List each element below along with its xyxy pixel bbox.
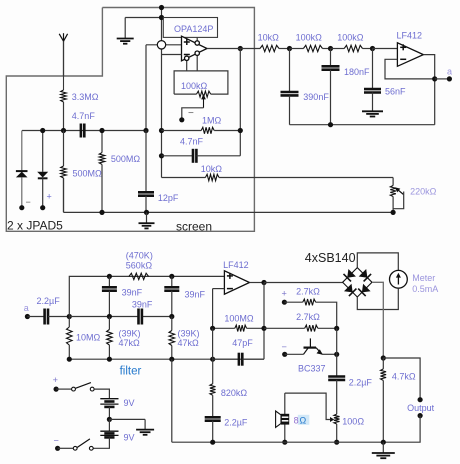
- label 390nF: [303, 92, 329, 102]
- svg-text:filter: filter: [120, 366, 142, 378]
- wire speaker vertical: [284, 393, 286, 442]
- svg-text:Ω: Ω: [300, 416, 307, 426]
- svg-text:220kΩ: 220kΩ: [410, 187, 437, 197]
- node filter n2: [328, 46, 333, 51]
- switch SW2: [58, 439, 94, 450]
- battery B2 9V: [93, 419, 118, 448]
- label 47k 2: [178, 338, 200, 348]
- wire bridge right vertical: [372, 282, 383, 358]
- node A junction: [67, 314, 72, 319]
- resistor R15 2.7k&#937;: [284, 299, 336, 328]
- label 1M: [202, 116, 222, 126]
- label 10M: [76, 333, 101, 343]
- node R3 top junction: [99, 128, 104, 133]
- wire feedback vertical: [239, 49, 241, 156]
- pot P1 wiper arrow: [182, 94, 206, 120]
- capacitor C4 390nF: [281, 49, 299, 125]
- terminal battery minus: [54, 436, 61, 451]
- node emitter junction: [334, 352, 339, 357]
- node 4.7k top junction: [381, 355, 386, 360]
- potentiometer P3 100&#937;: [285, 393, 340, 442]
- terminal pot wiper to V-: [179, 108, 194, 122]
- switch SW1: [56, 383, 109, 399]
- wire U3 out to bridge: [264, 282, 343, 284]
- ground G3: [362, 111, 383, 116]
- svg-text:180nF: 180nF: [344, 67, 370, 77]
- terminal battery plus: [53, 375, 59, 392]
- meter M1 0.5mA: [390, 270, 408, 288]
- wire filter top rail: [69, 276, 224, 316]
- svg-text:2 x JPAD5: 2 x JPAD5: [7, 219, 63, 233]
- resistor R9 10M&#937;: [67, 317, 73, 360]
- diode D2 JPAD5: [37, 131, 48, 208]
- terminal Output upper: [418, 397, 423, 402]
- svg-text:47pF: 47pF: [232, 338, 253, 348]
- svg-text:10MΩ: 10MΩ: [76, 333, 101, 343]
- wire out to terminal a: [435, 78, 450, 80]
- label 500M left: [73, 169, 103, 179]
- label 100k filter2: [337, 33, 364, 43]
- label 47k 1: [119, 338, 141, 348]
- node 100M left junction: [210, 326, 215, 331]
- svg-text:4.7nF: 4.7nF: [72, 111, 96, 121]
- node 100R bottom junction: [334, 440, 339, 445]
- svg-text:47kΩ: 47kΩ: [178, 338, 200, 348]
- svg-text:390nF: 390nF: [303, 92, 329, 102]
- resistor R8 100k&#937;: [331, 45, 373, 51]
- resistor R7 100k&#937;: [290, 45, 331, 51]
- node U3 out junction: [261, 280, 266, 285]
- terminal D1 minus: [19, 197, 31, 210]
- svg-text:3.3MΩ: 3.3MΩ: [72, 92, 99, 102]
- bridge rectifier 4xSB140 frame: [343, 268, 372, 297]
- wire U3 -input: [213, 289, 225, 329]
- label 10k filter: [258, 33, 280, 43]
- label 2.2uF input: [37, 296, 61, 306]
- capacitor C2 12pF: [138, 131, 154, 213]
- wire U1 output: [207, 48, 240, 50]
- label 12pF: [158, 193, 179, 203]
- resistor R12 47k&#937;: [169, 317, 175, 360]
- feedthrough bushing circle: [157, 41, 165, 49]
- label BC337: [298, 364, 326, 374]
- label 2.7k 1: [296, 287, 320, 297]
- node filter n1: [287, 46, 292, 51]
- label 220k: [410, 187, 437, 197]
- label 39nF 3: [132, 300, 153, 310]
- label filter: [120, 366, 142, 378]
- resistor R6 10k&#937; (filter): [240, 45, 289, 51]
- node fb vertical top junction: [238, 46, 243, 51]
- wire -input U1: [162, 54, 182, 56]
- node 2.7k junction: [334, 326, 339, 331]
- svg-text:−: −: [188, 108, 194, 119]
- svg-text:820kΩ: 820kΩ: [221, 388, 248, 398]
- wire screen enclosure (grounded shield box): [6, 8, 254, 232]
- label 9V bottom: [124, 433, 135, 443]
- label Meter: [412, 273, 435, 283]
- antenna: [59, 33, 67, 90]
- op-amp U1 label box: [163, 18, 217, 38]
- node rail-47k1 junction: [107, 357, 112, 362]
- svg-text:0.5mA: 0.5mA: [412, 284, 438, 294]
- wire +input vertical: [145, 45, 147, 131]
- terminal D2 plus: [40, 192, 52, 211]
- wire internal ground rail: [64, 178, 394, 212]
- label (470K): [126, 251, 153, 261]
- svg-text:10kΩ: 10kΩ: [201, 164, 223, 174]
- wire emitter chain vertical: [336, 328, 338, 376]
- label 100M: [224, 314, 254, 324]
- svg-text:100kΩ: 100kΩ: [296, 33, 323, 43]
- wire U3 output: [250, 282, 265, 284]
- capacitor C9 39nF: [164, 276, 179, 316]
- label 0.5mA: [412, 284, 438, 294]
- bridge diode D6 (bottom-right): [358, 284, 370, 296]
- svg-text:+: +: [47, 192, 52, 202]
- label 2.2uF right: [349, 378, 373, 388]
- capacitor C5 180nF: [322, 49, 340, 125]
- label 3.3M: [72, 92, 99, 102]
- bridge diode D5 (bottom-left): [344, 284, 356, 296]
- svg-text:9V: 9V: [124, 398, 135, 408]
- transistor Q1 BC337: [285, 338, 337, 354]
- svg-text:2.2µF: 2.2µF: [37, 296, 61, 306]
- node rail-4.7k junction: [381, 440, 386, 445]
- wire U2 -input loop: [385, 59, 435, 79]
- op-amp U1 OPA124P: [182, 36, 208, 61]
- svg-text:LF412: LF412: [397, 31, 423, 41]
- svg-text:39nF: 39nF: [185, 290, 206, 300]
- svg-text:56nF: 56nF: [385, 87, 406, 97]
- svg-text:BC337: BC337: [298, 364, 326, 374]
- node rail-820k bottom junction: [210, 440, 215, 445]
- resistor R2 500M&#937; (left): [61, 131, 67, 213]
- pin trim2 circle U1: [185, 56, 189, 71]
- label 4.7nF feedback: [180, 137, 204, 147]
- svg-text:Output: Output: [407, 403, 435, 413]
- label 2.7k 2: [296, 312, 320, 322]
- svg-text:−: −: [26, 197, 31, 207]
- svg-text:+: +: [53, 375, 58, 385]
- label 820k: [221, 388, 248, 398]
- label 10k feedback: [201, 164, 223, 174]
- label (39K) 2: [178, 329, 200, 339]
- terminal Output lower: [172, 413, 423, 442]
- node 12pF top junction: [143, 128, 148, 133]
- wire filter bottom rail: [69, 358, 264, 360]
- node rail-820k junction: [210, 357, 215, 362]
- pin V+ circle U1: [195, 37, 199, 45]
- label (39K) 1: [119, 329, 141, 339]
- ground G5: [136, 430, 154, 435]
- svg-text:100kΩ: 100kΩ: [181, 81, 208, 91]
- svg-text:+: +: [282, 289, 287, 299]
- svg-text:560kΩ: 560kΩ: [126, 261, 153, 271]
- svg-text:500MΩ: 500MΩ: [73, 169, 103, 179]
- node 220k bottom junction: [391, 210, 396, 215]
- resistor R11 47k&#937;: [107, 317, 113, 360]
- wire battery mid to ground: [109, 419, 145, 429]
- op-amp U2 LF412A: [397, 43, 423, 67]
- resistor R4 1M&#937;: [162, 127, 241, 133]
- ground G4: [372, 442, 395, 458]
- capacitor C13 2.2uF: [328, 377, 345, 415]
- potentiometer P2 220k: [390, 178, 403, 213]
- potentiometer P1 100k box: [174, 71, 228, 97]
- svg-text:500MΩ: 500MΩ: [111, 154, 141, 164]
- resistor 3.3M&#937;: [61, 90, 67, 102]
- svg-text:10kΩ: 10kΩ: [258, 33, 280, 43]
- op-amp U3 LF412B: [224, 271, 249, 294]
- node D2 top junction: [40, 128, 45, 133]
- svg-text:LF412: LF412: [223, 260, 249, 270]
- label 56nF: [385, 87, 406, 97]
- node U2 out junction: [432, 76, 437, 81]
- resistor R10 560k&#937;: [129, 273, 149, 279]
- label 47pF: [232, 338, 253, 348]
- op-amp U2 label LF412: [397, 31, 423, 41]
- diode D1 JPAD5: [16, 131, 28, 208]
- node fb-4.7nF junction: [159, 153, 164, 158]
- capacitor C10 39nF (series): [139, 309, 142, 325]
- op-amp U1 label OPA124P: [174, 24, 213, 34]
- bridge diode D3 (top-left): [344, 269, 356, 281]
- terminal minus supply: [282, 342, 288, 357]
- capacitor C6 56nF: [364, 49, 381, 111]
- wire +input horizontal: [146, 44, 182, 46]
- node B' junction: [107, 274, 112, 279]
- node filter n3: [370, 46, 398, 51]
- svg-text:2.2µF: 2.2µF: [224, 418, 248, 428]
- node fb-1M right junction: [238, 128, 243, 133]
- node C' junction: [169, 274, 174, 279]
- svg-text:2.2µF: 2.2µF: [349, 378, 373, 388]
- wire filter middle rail: [69, 316, 172, 318]
- bridge diode D4 (top-right): [359, 269, 371, 281]
- label 39nF 1: [122, 288, 143, 298]
- label 8 ohm: [294, 415, 310, 426]
- node B junction: [107, 314, 112, 319]
- label 39nF 2: [185, 290, 206, 300]
- svg-text:(39K): (39K): [119, 329, 141, 339]
- svg-text:screen: screen: [176, 220, 212, 234]
- wire filter rail to ground rail: [171, 359, 173, 442]
- label 4.7k: [392, 372, 416, 382]
- node fb-1M junction: [159, 128, 164, 133]
- node junction screen-top: [159, 5, 164, 10]
- node rail-12pF junction: [144, 210, 149, 215]
- wire bridge top to meter: [357, 253, 398, 271]
- node rail-10M junction: [67, 357, 72, 362]
- resistor R14 820k&#937;: [210, 359, 216, 417]
- label 180nF: [344, 67, 370, 77]
- svg-text:a: a: [447, 67, 452, 77]
- battery B1 9V: [100, 399, 118, 420]
- svg-text:9V: 9V: [124, 433, 135, 443]
- svg-text:100MΩ: 100MΩ: [224, 314, 254, 324]
- label 100k filter1: [296, 33, 323, 43]
- node 180nF bottom junction: [328, 122, 333, 127]
- svg-text:(39K): (39K): [178, 329, 200, 339]
- svg-text:4.7nF: 4.7nF: [180, 137, 204, 147]
- svg-text:4xSB140: 4xSB140: [305, 251, 356, 265]
- capacitor C12 2.2uF: [205, 417, 221, 442]
- op-amp U3 label LF412: [223, 260, 249, 270]
- svg-text:Meter: Meter: [412, 273, 435, 283]
- wire U2 output: [423, 55, 434, 125]
- label 2.2uF mid: [224, 418, 248, 428]
- ground G2: [139, 212, 155, 228]
- node rail-R3 junction: [99, 210, 104, 215]
- svg-text:39nF: 39nF: [132, 300, 153, 310]
- svg-text:(470K): (470K): [126, 251, 153, 261]
- capacitor C7 2.2uF: [27, 309, 69, 325]
- svg-text:8: 8: [294, 416, 299, 426]
- label 9V top: [124, 398, 135, 408]
- label 2 x JPAD5: [7, 219, 63, 233]
- svg-text:a: a: [24, 303, 29, 313]
- wire 3.3M to input node: [63, 102, 65, 131]
- wire ground stub to screen top: [125, 18, 163, 39]
- svg-text:39nF: 39nF: [122, 288, 143, 298]
- pin trim1 circle U1: [195, 51, 199, 71]
- resistor R16 2.7k&#937;: [264, 325, 337, 331]
- node rail-47k2 junction: [169, 357, 174, 362]
- node 100M right junction: [261, 326, 266, 331]
- label 100R: [342, 417, 364, 427]
- svg-text:100kΩ: 100kΩ: [337, 33, 364, 43]
- node junction ground-stub: [159, 15, 164, 20]
- resistor R3 500M&#937; (right): [99, 131, 105, 213]
- resistor R13 100M&#937;: [213, 325, 264, 331]
- wire output tap: [383, 358, 420, 400]
- svg-text:47kΩ: 47kΩ: [119, 338, 141, 348]
- label 100k pot: [181, 81, 208, 91]
- terminal plus supply: [282, 289, 288, 305]
- node speaker bottom junction: [282, 440, 287, 445]
- terminal a (top): [447, 67, 452, 82]
- label screen: [176, 220, 212, 234]
- node input-3.3M junction: [61, 128, 66, 133]
- wire U3 out vertical: [263, 283, 265, 360]
- svg-text:OPA124P: OPA124P: [174, 24, 213, 34]
- capacitor C3 4.7nF (feedback): [162, 149, 241, 163]
- svg-text:−: −: [54, 436, 59, 446]
- svg-text:2.7kΩ: 2.7kΩ: [296, 287, 320, 297]
- svg-text:1MΩ: 1MΩ: [202, 116, 222, 126]
- node C junction: [169, 314, 174, 319]
- capacitor C8 39nF: [102, 276, 117, 316]
- label 4xSB140: [305, 251, 356, 265]
- wire input node rail: [22, 130, 146, 132]
- ground G1: [117, 39, 134, 44]
- svg-text:4.7kΩ: 4.7kΩ: [392, 372, 416, 382]
- wire filter feedback rail: [290, 124, 435, 126]
- label Output: [407, 403, 435, 413]
- resistor R5 10k&#937;: [162, 174, 394, 180]
- label 500M right: [111, 154, 141, 164]
- wire guard/feedback vertical x161.5: [161, 8, 163, 178]
- resistor R17 4.7k&#937;: [381, 358, 387, 442]
- capacitor C1 4.7nF: [72, 111, 96, 138]
- svg-text:2.7kΩ: 2.7kΩ: [296, 312, 320, 322]
- speaker LS1 8R: [276, 411, 290, 427]
- svg-text:−: −: [282, 342, 287, 352]
- capacitor C11 47pF: [213, 328, 264, 365]
- label 560k: [126, 261, 153, 271]
- svg-text:12pF: 12pF: [158, 193, 179, 203]
- svg-text:100Ω: 100Ω: [342, 417, 364, 427]
- node battery mid junction: [107, 417, 112, 422]
- terminal a (bottom): [24, 303, 30, 319]
- wire meter bottom to bridge bottom: [357, 288, 398, 309]
